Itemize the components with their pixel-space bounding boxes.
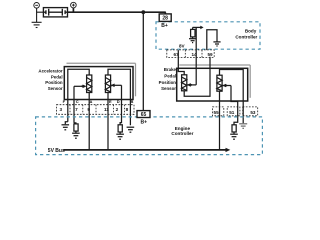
pin letters F C A E D B	[63, 99, 134, 104]
brake pedal position sensor box	[177, 68, 248, 101]
svg-text:Position: Position	[159, 80, 177, 85]
svg-text:8: 8	[126, 107, 129, 112]
svg-text:8V: 8V	[179, 43, 186, 48]
connector dividers body pins	[185, 50, 202, 58]
potentiometer BPP1	[182, 75, 187, 91]
resistor in body controller (8V regulator)	[191, 29, 195, 37]
wire body pin 67 to pot3 top	[178, 50, 184, 75]
pin 53 engine controller	[243, 107, 258, 116]
wiper BPP1 arrow (fed by 8V pin 14)	[187, 83, 196, 87]
accelerator pedal position sensor box	[64, 67, 133, 100]
wire pot1 top to pin F	[68, 69, 89, 122]
wire pin 59 to internal ground	[207, 30, 217, 50]
svg-text:51: 51	[229, 110, 235, 115]
svg-text:E: E	[109, 99, 112, 104]
svg-text:D: D	[117, 99, 120, 104]
wire pot4 top to engine pin 53	[220, 70, 244, 124]
ground battery	[32, 22, 42, 27]
label Accelerator Pedal Position Sensor	[38, 69, 62, 91]
wire pin 3 to ground in engine controller	[65, 122, 68, 125]
wire wiper1 to pin C	[73, 86, 75, 123]
shadow brake sensor box	[179, 65, 250, 98]
wire pot2 bottom to pin E and 5V bus	[107, 93, 109, 150]
wire 8V supply with arrow	[193, 27, 201, 29]
engine controller dashed box	[36, 117, 263, 155]
ground under pin 7 resistor	[75, 131, 77, 133]
svg-text:Sensor: Sensor	[48, 86, 63, 91]
wire pot4 bottom to engine pin 55 and 5V bus	[219, 91, 221, 150]
wire B+ down to engine controller pin 65	[142, 12, 144, 110]
svg-text:B: B	[130, 99, 133, 104]
wiper APP2 arrow	[111, 84, 122, 88]
connector dashed box body controller pins	[167, 50, 214, 58]
ground engine pin 53 (grey)	[239, 124, 247, 129]
svg-text:Body: Body	[245, 29, 257, 34]
ground under pin 2 resistor	[119, 132, 121, 134]
svg-text:Pedal: Pedal	[51, 74, 63, 79]
shadow accelerator sensor box	[67, 63, 136, 96]
node junction on B+ rail	[141, 10, 145, 14]
wire B+ rail	[68, 8, 166, 14]
potentiometer APP2	[105, 75, 110, 93]
ground engine pin 3	[62, 125, 70, 130]
svg-text:C: C	[76, 99, 79, 104]
ground under pin 51 resistor	[233, 132, 235, 134]
svg-text:2: 2	[116, 107, 119, 112]
potentiometer BPP2	[217, 75, 222, 91]
svg-text:65: 65	[141, 112, 147, 118]
svg-text:55: 55	[214, 110, 220, 115]
svg-text:Brake: Brake	[164, 67, 177, 72]
body controller dashed box	[156, 22, 260, 49]
svg-text:Controller: Controller	[235, 34, 257, 39]
ground at body controller pin 59	[213, 42, 220, 46]
connector dividers	[70, 105, 125, 115]
svg-text:B+: B+	[141, 119, 148, 125]
battery positive terminal	[71, 2, 77, 8]
battery negative terminal	[34, 3, 40, 9]
resistor engine pin 7	[74, 124, 78, 131]
ground under body resistor	[189, 37, 196, 43]
wiper BPP2 arrow	[222, 84, 231, 88]
svg-text:Pedal: Pedal	[164, 74, 176, 79]
wire pot3 bottom to body pin 59	[184, 57, 210, 96]
ground engine pin 8	[127, 127, 135, 132]
pin 28 box (B+ into body controller)	[159, 14, 171, 22]
label Brake Pedal Position Sensor	[159, 67, 177, 91]
wiper APP1 arrow	[74, 85, 87, 89]
pin 65 box (B+ into engine controller)	[137, 111, 150, 119]
svg-text:Accelerator: Accelerator	[38, 69, 62, 74]
battery B+ box	[43, 8, 67, 17]
svg-text:11: 11	[104, 107, 109, 112]
5V bus line	[63, 148, 230, 152]
pin numbers 3 7 9 11 2 8	[60, 107, 129, 112]
svg-text:B+: B+	[161, 23, 168, 29]
svg-text:Controller: Controller	[171, 131, 193, 136]
pin 51 engine controller	[227, 107, 240, 116]
svg-text:28: 28	[162, 16, 168, 22]
wire body pin 14 down to wiper3	[195, 27, 197, 85]
svg-text:7: 7	[75, 107, 78, 112]
wire battery negative lead	[37, 8, 44, 22]
wire pot2 top to pin B	[108, 69, 130, 125]
connector dashed box accel pins	[57, 105, 135, 115]
wire pin 7 to resistor	[74, 123, 76, 124]
resistor engine pin 51	[232, 125, 236, 132]
svg-text:Sensor: Sensor	[161, 86, 176, 91]
svg-text:9: 9	[87, 107, 90, 112]
svg-text:53: 53	[250, 110, 256, 115]
svg-text:59: 59	[207, 52, 213, 57]
resistor engine pin 2	[118, 125, 122, 132]
potentiometer APP1	[87, 75, 92, 93]
svg-text:5V Bus: 5V Bus	[48, 148, 65, 154]
wire wiper2 to pin 2	[120, 85, 121, 125]
svg-text:Position: Position	[45, 80, 63, 85]
svg-text:A: A	[90, 99, 93, 104]
wire wiper4 to engine pin 51	[231, 86, 238, 125]
wire pot1 bottom to pin A and 5V bus	[88, 93, 90, 150]
svg-text:3: 3	[60, 107, 63, 112]
pin 55 engine controller	[213, 107, 224, 116]
